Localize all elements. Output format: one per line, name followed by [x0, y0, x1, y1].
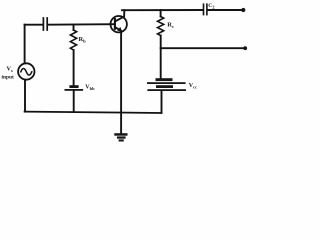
top rail collector to C2: [122, 9, 203, 11]
output terminal 2 dot: [243, 46, 247, 50]
source VS circle: [18, 63, 34, 79]
transistor Q1 collector lead: [115, 10, 124, 21]
resistor RB: [70, 30, 76, 50]
node B junction stub: [73, 25, 75, 30]
label Vs input: [2, 66, 14, 81]
source VS sine symbol: [21, 69, 32, 76]
node C junction stub: [160, 10, 162, 17]
output line 2 (node D to terminal 2): [161, 47, 244, 49]
transistor Q1 circle: [111, 16, 127, 32]
transistor Q1 emitter lead: [115, 27, 121, 31]
wire C1 to base node: [48, 23, 115, 26]
label RC: [167, 22, 174, 30]
transistor Q1 emitter arrowhead: [117, 27, 122, 32]
resistor RC: [158, 17, 164, 36]
ground: [114, 133, 127, 141]
svg-text:Vbb: Vbb: [85, 84, 95, 91]
svg-text:Vs: Vs: [7, 66, 13, 74]
output terminal 1 dot: [241, 8, 245, 12]
svg-text:Vcc: Vcc: [189, 83, 197, 90]
bottom rail: [25, 112, 162, 113]
wire VBB to bottom rail: [73, 91, 75, 112]
wire RC to node D: [160, 36, 162, 79]
battery VCC: [147, 78, 186, 91]
wire source to bottom rail: [24, 80, 26, 112]
transistor Q1 base bar: [114, 19, 116, 29]
wire RB to battery VBB: [73, 50, 75, 85]
wire C2 to output terminal 1: [208, 9, 242, 11]
label VCC: [189, 83, 197, 90]
wire VCC to bottom rail: [161, 91, 163, 113]
svg-text:C2: C2: [208, 3, 214, 9]
label C2: [208, 3, 214, 9]
wire left vertical (corner down to source): [24, 25, 26, 64]
label VBB: [85, 84, 95, 91]
svg-text:input: input: [2, 75, 14, 81]
capacitor C2: [204, 4, 207, 14]
wire emitter down to ground: [120, 31, 122, 133]
battery VBB: [65, 85, 84, 91]
svg-text:Rb: Rb: [79, 36, 87, 44]
svg-text:Rc: Rc: [167, 22, 174, 30]
label RB: [79, 36, 87, 44]
capacitor C1: [43, 18, 47, 30]
wire top-left horizontal (source to C1): [25, 24, 43, 26]
